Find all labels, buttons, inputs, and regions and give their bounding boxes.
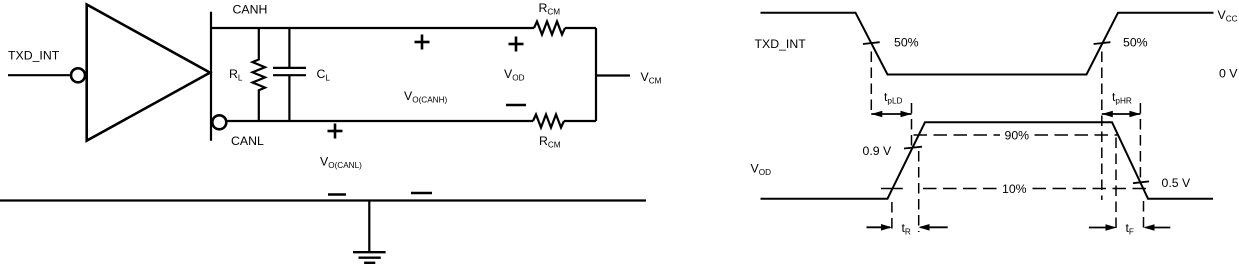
- svg-text:TXD_INT: TXD_INT: [8, 49, 60, 63]
- wire CANH top rail: [211, 27, 534, 29]
- CANL output bubble: [212, 115, 226, 129]
- 50% tick on rising edge: [1094, 42, 1111, 44]
- ground symbol: [353, 252, 386, 263]
- driver U1 input bubble: [71, 68, 85, 82]
- svg-text:CANH: CANH: [233, 3, 268, 17]
- arrow tR left: [867, 224, 893, 231]
- wire CANL bottom rail: [227, 120, 533, 122]
- plus sign VOD: [509, 37, 524, 52]
- arrow tR right: [919, 224, 948, 231]
- svg-text:tF: tF: [1126, 221, 1134, 237]
- minus sign VOD: [506, 104, 526, 107]
- svg-text:TXD_INT: TXD_INT: [755, 37, 807, 51]
- arrow tpHR: [1102, 111, 1141, 118]
- dashed vertical tF left (90% fall crossing): [1115, 138, 1117, 232]
- svg-text:VCC: VCC: [1218, 8, 1238, 24]
- svg-text:RCM: RCM: [539, 134, 561, 150]
- arrow tF left: [1089, 224, 1117, 231]
- svg-text:VOD: VOD: [751, 162, 772, 178]
- wire output bus vertical: [210, 12, 212, 141]
- svg-text:90%: 90%: [1005, 129, 1030, 143]
- minus sign VO(CANL) ground side: [328, 193, 346, 196]
- dashed vertical tpLD right (0.9V crossing): [911, 103, 913, 148]
- svg-text:VCM: VCM: [641, 70, 662, 86]
- svg-text:10%: 10%: [1002, 182, 1027, 196]
- wire RCM top to right bus: [565, 27, 596, 29]
- 90% dashed level line: [914, 134, 1118, 136]
- svg-text:CL: CL: [317, 67, 331, 83]
- wire right bus vertical: [595, 28, 597, 121]
- resistor RCM bottom: [533, 115, 564, 128]
- plus sign VO(CANL): [328, 124, 343, 139]
- wire TXD_INT input: [8, 74, 70, 76]
- dashed vertical tR left (10% rise crossing): [891, 202, 893, 232]
- svg-text:VO(CANL): VO(CANL): [320, 155, 362, 171]
- arrow tF right: [1144, 224, 1171, 231]
- driver U1 triangle: [87, 5, 210, 141]
- svg-text:RCM: RCM: [539, 1, 561, 17]
- wire RCM bottom to right bus: [564, 120, 596, 122]
- svg-text:tpLD: tpLD: [884, 90, 903, 106]
- resistor RL: [253, 28, 266, 121]
- capacitor CL: [273, 28, 306, 121]
- dashed vertical tpLD left (TXD 50% fall): [870, 52, 872, 112]
- plus sign VO(CANH): [415, 35, 430, 50]
- TXD_INT waveform: [761, 13, 1214, 75]
- 10% tick on rising edge (first dash): [881, 188, 903, 190]
- 50% tick on falling edge: [863, 42, 880, 44]
- svg-text:0.5 V: 0.5 V: [1162, 176, 1192, 190]
- arrow tpLD: [871, 111, 911, 118]
- dashed vertical tF right (10% fall crossing): [1143, 201, 1145, 232]
- svg-text:50%: 50%: [1123, 36, 1148, 50]
- svg-text:tR: tR: [902, 221, 911, 237]
- svg-text:50%: 50%: [894, 36, 919, 50]
- svg-text:0.9 V: 0.9 V: [863, 144, 893, 158]
- svg-text:0 V: 0 V: [1219, 67, 1238, 81]
- svg-text:VOD: VOD: [504, 67, 525, 83]
- svg-text:RL: RL: [229, 67, 243, 83]
- resistor RCM top: [534, 22, 565, 35]
- 0.5 V tick on falling edge: [1133, 181, 1149, 183]
- svg-text:VO(CANH): VO(CANH): [404, 89, 447, 105]
- wire ground rail: [0, 199, 646, 201]
- dashed vertical tR right (90% rise crossing): [918, 151, 920, 232]
- dashed vertical tpHR right (0.5V crossing): [1139, 103, 1141, 183]
- wire VCM stub: [596, 74, 630, 76]
- svg-text:CANL: CANL: [231, 134, 264, 148]
- wire ground stem: [368, 201, 370, 253]
- minus sign VO(CANH) ground side: [411, 192, 432, 195]
- svg-text:tpHR: tpHR: [1112, 90, 1132, 106]
- VOD waveform: [761, 122, 1214, 199]
- dashed vertical tpHR left (TXD 50% rise): [1101, 52, 1103, 201]
- 0.9 V tick on rising edge: [904, 147, 922, 149]
- 10% dashed level line: [923, 188, 1147, 190]
